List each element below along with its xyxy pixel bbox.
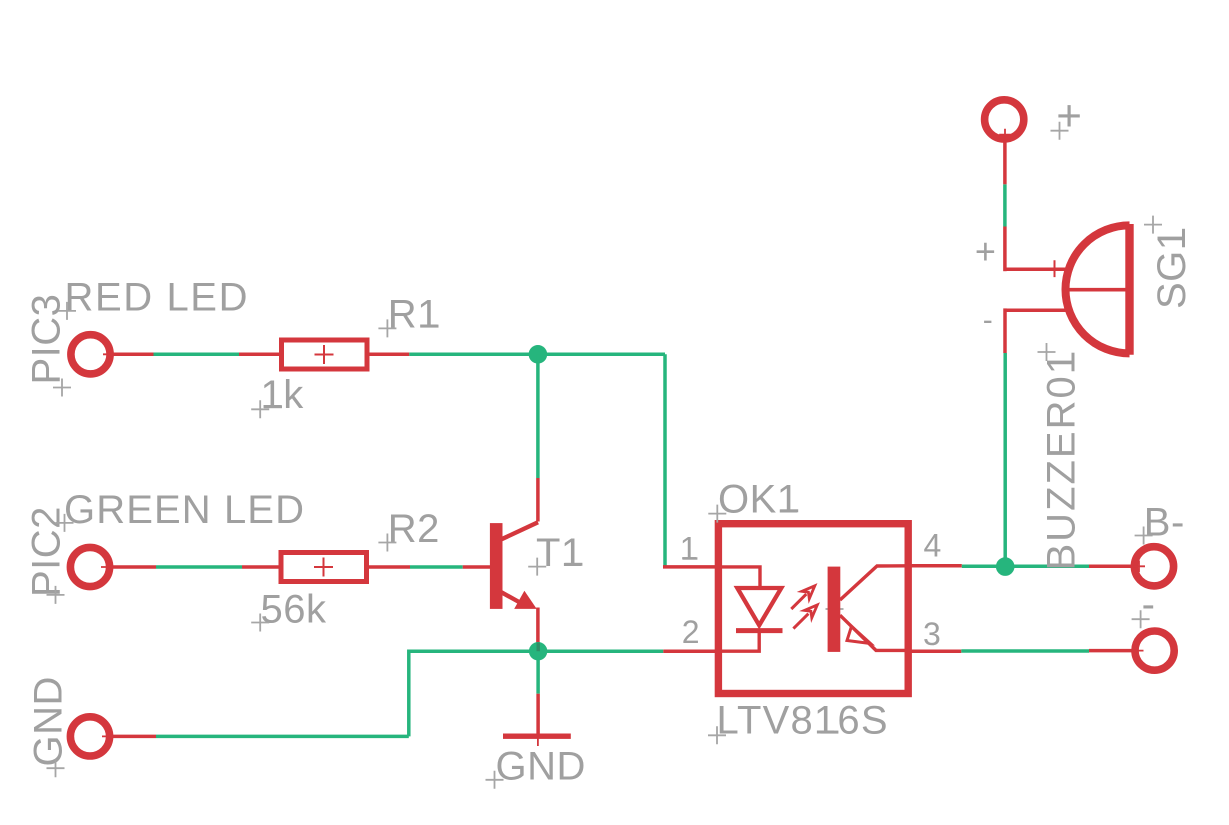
wire net N1 vertical to T1 collector xyxy=(536,354,540,478)
svg-text:4: 4 xyxy=(924,528,942,564)
wire OK1 pin2 xyxy=(663,649,718,653)
wire R1 right pin xyxy=(367,353,409,357)
wire T1 collector stub xyxy=(536,478,540,522)
resistor R2 xyxy=(281,553,367,582)
wire net N1 horizontal xyxy=(409,353,665,357)
OK1 LED anode lead xyxy=(721,567,760,588)
svg-text:+: + xyxy=(975,230,997,271)
wire net REDLED segment xyxy=(154,353,240,357)
OK1 phototransistor emitter xyxy=(840,615,908,650)
wire net B- vertical to buzzer xyxy=(1003,353,1007,566)
wire OK1 pin3 xyxy=(908,649,961,653)
wire net GREENLED segment xyxy=(156,565,242,569)
origin cross T1 xyxy=(528,558,546,576)
wire net plus green segment xyxy=(1003,184,1007,226)
origin cross RED LED xyxy=(58,302,76,320)
svg-text:-: - xyxy=(983,304,994,337)
origin cross LTV816S xyxy=(708,726,726,744)
svg-text:BUZZER01: BUZZER01 xyxy=(1040,350,1084,571)
svg-text:2: 2 xyxy=(682,614,700,650)
origin cross GREEN LED xyxy=(56,514,74,532)
junction node E xyxy=(529,642,547,660)
svg-text:T1: T1 xyxy=(536,531,584,575)
wire pad GND pin stub xyxy=(110,735,156,739)
origin cross PIC2 xyxy=(47,586,65,604)
wire net N1 vertical to OK1 pin1 xyxy=(663,354,667,567)
svg-text:OK1: OK1 xyxy=(718,477,800,521)
wire net GND horizontal bottom xyxy=(156,735,409,739)
origin cross GND symbol xyxy=(486,771,504,789)
svg-text:SG1: SG1 xyxy=(1150,227,1194,309)
optocoupler OK1 box xyxy=(718,524,908,694)
svg-text:PIC2: PIC2 xyxy=(25,506,69,597)
pad GND xyxy=(70,717,114,756)
wire R2 right pin xyxy=(366,565,410,569)
pad minus xyxy=(1132,631,1175,670)
origin cross OK1 center xyxy=(826,600,844,618)
OK1 LED cathode bar xyxy=(736,628,783,633)
svg-text:1k: 1k xyxy=(261,373,305,417)
wire buzzer plus pin horizontal xyxy=(1005,268,1070,272)
wire R1 left pin xyxy=(239,353,281,357)
wire buzzer minus pin vertical xyxy=(1003,308,1007,353)
OK1 light arrow lower xyxy=(793,605,817,629)
wire pad minus pin stub xyxy=(1089,649,1133,653)
wire pad PIC2 pin stub xyxy=(110,565,156,569)
buzzer SG1 body xyxy=(1066,224,1130,355)
wire buzzer plus pin vertical xyxy=(1003,227,1007,272)
wire net GND vertical riser xyxy=(409,651,664,736)
wire buzzer minus pin horizontal xyxy=(1005,309,1069,313)
wire OK1 pin1 xyxy=(663,565,718,569)
origin cross SG1 xyxy=(1144,216,1162,234)
wire net pin3 green segment xyxy=(961,649,1089,653)
pad PIC2 xyxy=(70,547,113,586)
wire GND symbol pin xyxy=(536,694,540,734)
svg-text:56k: 56k xyxy=(261,588,327,632)
pad PIC3 xyxy=(71,335,115,374)
wire net base segment xyxy=(410,565,463,569)
wire OK1 pin4 xyxy=(908,564,962,568)
svg-text:GND: GND xyxy=(27,676,71,766)
origin cross GND left xyxy=(47,759,65,777)
wire net GND below junction xyxy=(536,651,540,694)
origin cross OK1 xyxy=(708,505,726,523)
transistor T1 xyxy=(490,522,538,609)
origin cross pad minus xyxy=(1132,610,1150,628)
OK1 phototransistor base bar xyxy=(828,567,841,652)
origin cross R2 xyxy=(378,534,396,552)
svg-text:PIC3: PIC3 xyxy=(25,294,69,385)
origin cross buzzer red xyxy=(1044,260,1065,277)
svg-text:GND: GND xyxy=(496,744,586,788)
OK1 LED cathode lead xyxy=(721,631,759,652)
svg-text:3: 3 xyxy=(923,616,941,652)
svg-text:1: 1 xyxy=(680,531,698,567)
svg-text:R2: R2 xyxy=(388,507,440,551)
svg-text:LTV816S: LTV816S xyxy=(717,699,889,743)
OK1 light arrow upper xyxy=(791,586,815,609)
wire T1 base pin xyxy=(463,565,492,569)
pad B- xyxy=(1133,547,1174,586)
junction node N1 xyxy=(529,345,548,364)
junction node B- xyxy=(996,557,1015,576)
wire pad plus pin stub xyxy=(1003,140,1007,184)
wire T1 emitter stub xyxy=(536,608,540,652)
svg-text:RED LED: RED LED xyxy=(65,276,250,320)
origin cross 56k xyxy=(251,614,269,632)
pad plus top xyxy=(985,100,1024,141)
origin cross PIC3 xyxy=(53,379,71,397)
wire pad B- pin stub xyxy=(1089,565,1132,569)
svg-text:GREEN LED: GREEN LED xyxy=(64,488,305,532)
ground symbol xyxy=(503,730,571,746)
origin cross R1 xyxy=(378,319,396,337)
wire pad PIC3 pin stub xyxy=(110,353,154,357)
OK1 phototransistor collector xyxy=(840,566,908,600)
svg-text:R1: R1 xyxy=(388,293,440,337)
origin cross pad plus xyxy=(1051,122,1069,140)
origin cross BUZZER01 xyxy=(1038,343,1056,361)
wire net B- green segment xyxy=(962,565,1089,569)
origin cross B- xyxy=(1135,527,1153,545)
resistor R1 xyxy=(282,340,368,369)
OK1 LED triangle xyxy=(737,588,781,625)
origin cross 1k xyxy=(251,400,269,418)
wire R2 left pin xyxy=(242,565,282,569)
svg-text:B-: B- xyxy=(1144,500,1185,544)
